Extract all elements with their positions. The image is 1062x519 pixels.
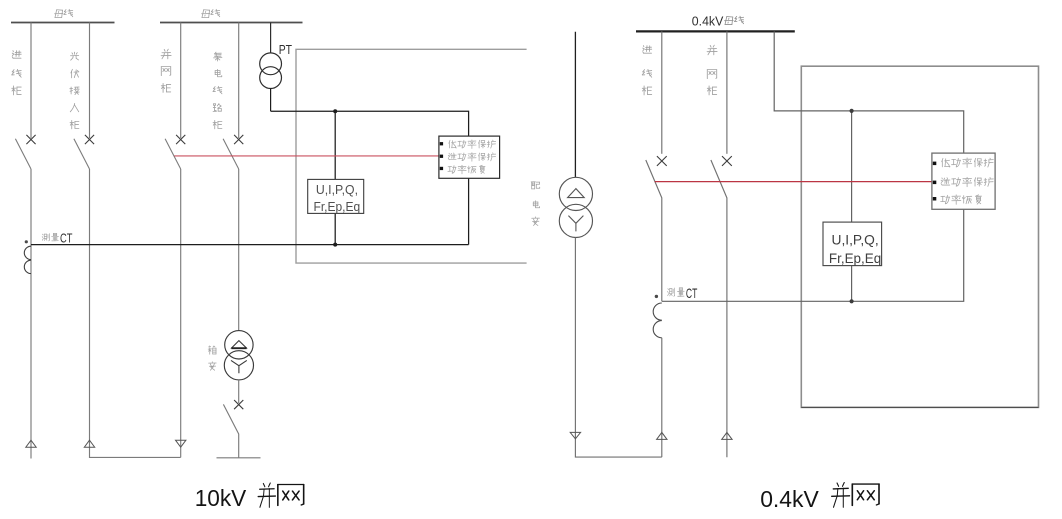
svg-text:Fr,Ep,Eq: Fr,Ep,Eq [829, 250, 881, 266]
svg-text:10kV: 10kV [195, 485, 247, 511]
svg-text:CT: CT [686, 285, 698, 301]
svg-text:U,I,P,Q,: U,I,P,Q, [316, 183, 358, 197]
svg-text:PT: PT [279, 42, 292, 57]
svg-text:Fr,Ep,Eq: Fr,Ep,Eq [314, 200, 361, 214]
svg-text:U,I,P,Q,: U,I,P,Q, [832, 231, 879, 247]
svg-text:0.4kV: 0.4kV [760, 486, 819, 512]
svg-text:CT: CT [60, 231, 72, 246]
svg-text:0.4kV: 0.4kV [692, 14, 724, 29]
